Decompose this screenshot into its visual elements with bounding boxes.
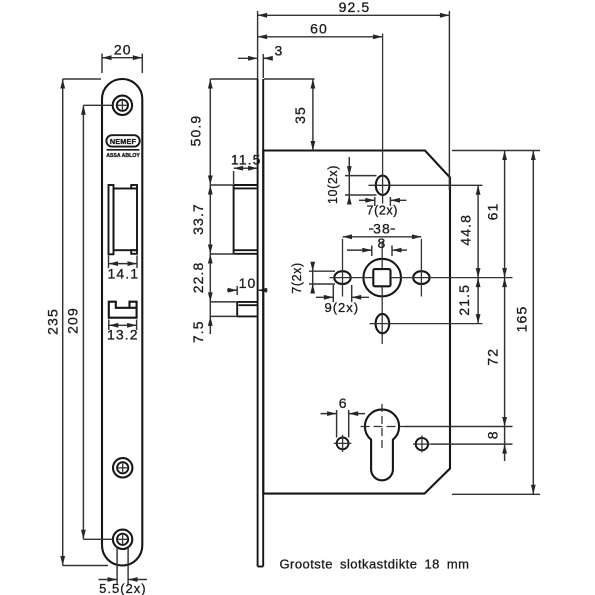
svg-text:9(2x): 9(2x) xyxy=(324,300,359,315)
dim 7(2x) top xyxy=(359,197,407,217)
dim 6 xyxy=(321,395,366,438)
svg-text:11.5: 11.5 xyxy=(231,152,262,168)
svg-text:209: 209 xyxy=(64,307,80,334)
svg-text:13.2: 13.2 xyxy=(107,327,139,343)
small hole left of cylinder xyxy=(334,435,352,452)
svg-text:92.5: 92.5 xyxy=(339,0,371,15)
svg-text:8: 8 xyxy=(378,235,387,251)
svg-text:50.9: 50.9 xyxy=(188,115,204,147)
faceplate side bar xyxy=(258,79,264,567)
dim 10(2x) xyxy=(326,157,377,205)
screw hole bottom xyxy=(113,530,132,549)
dim chain right 44.8 21.5 xyxy=(456,185,481,323)
dim 5.5(2x) xyxy=(99,546,148,595)
svg-text:72: 72 xyxy=(484,348,500,366)
svg-text:ASSA ABLOY: ASSA ABLOY xyxy=(106,153,140,159)
svg-text:5.5(2x): 5.5(2x) xyxy=(99,581,146,595)
svg-text:7(2x): 7(2x) xyxy=(367,203,398,217)
svg-text:60: 60 xyxy=(310,21,328,37)
NEMEF logo xyxy=(106,135,140,159)
right oval hole xyxy=(413,239,429,297)
dim 92.5 xyxy=(258,0,450,190)
svg-text:22.8: 22.8 xyxy=(190,262,206,294)
svg-text:8: 8 xyxy=(484,430,500,439)
dim 13.2 xyxy=(107,320,139,343)
svg-text:3: 3 xyxy=(274,43,283,59)
dim 14.1 xyxy=(107,256,139,282)
screw hole middle xyxy=(113,458,132,477)
dim chain 50.9 33.7 22.8 7.5 xyxy=(188,79,257,343)
dim 35 xyxy=(264,79,315,151)
left oval hole xyxy=(334,239,350,297)
euro cylinder hole xyxy=(361,404,513,480)
svg-text:NEMEF: NEMEF xyxy=(110,137,137,146)
dim 10 side xyxy=(227,275,268,295)
dim 11.5 xyxy=(231,152,262,185)
svg-text:165: 165 xyxy=(513,306,529,333)
dim 235 xyxy=(44,79,108,566)
dim 165 xyxy=(452,151,540,495)
deadbolt side view xyxy=(237,302,257,317)
svg-text:235: 235 xyxy=(44,308,60,335)
svg-text:10(2x): 10(2x) xyxy=(326,165,340,204)
dim 9(2x) xyxy=(316,285,369,315)
svg-text:6: 6 xyxy=(339,395,348,411)
note text xyxy=(280,557,470,572)
dim 7(2x) left xyxy=(290,262,335,294)
deadbolt cutout front xyxy=(109,302,137,318)
lock case outline xyxy=(263,151,450,494)
svg-text:7(2x): 7(2x) xyxy=(290,262,304,293)
bottom slot hole xyxy=(370,314,483,333)
dim 8 spindle xyxy=(347,235,407,256)
svg-text:Grootste slotkastdikte 18 mm: Grootste slotkastdikte 18 mm xyxy=(280,557,470,572)
svg-text:44.8: 44.8 xyxy=(458,214,474,246)
svg-text:33.7: 33.7 xyxy=(190,203,206,235)
faceplate outline xyxy=(102,79,142,566)
dim 20 xyxy=(102,42,142,74)
svg-text:61: 61 xyxy=(484,203,500,221)
svg-text:35: 35 xyxy=(292,106,308,124)
svg-text:20: 20 xyxy=(114,42,132,58)
svg-text:7.5: 7.5 xyxy=(190,320,206,343)
dim 60 xyxy=(258,21,383,40)
dim 38 xyxy=(343,221,422,240)
spindle follower xyxy=(363,259,401,297)
screw hole top xyxy=(113,96,132,115)
center lines mid row xyxy=(330,241,513,344)
latch side view xyxy=(234,185,258,254)
svg-text:14.1: 14.1 xyxy=(107,266,139,282)
dim 209 xyxy=(64,105,112,539)
dim chain right 61 72 8 xyxy=(484,151,507,462)
svg-text:10: 10 xyxy=(239,275,257,291)
small hole right of cylinder xyxy=(413,436,513,453)
top slot hole xyxy=(369,34,483,204)
svg-text:21.5: 21.5 xyxy=(456,284,472,316)
dim 3 xyxy=(238,43,283,79)
latch cutout front xyxy=(109,185,138,254)
